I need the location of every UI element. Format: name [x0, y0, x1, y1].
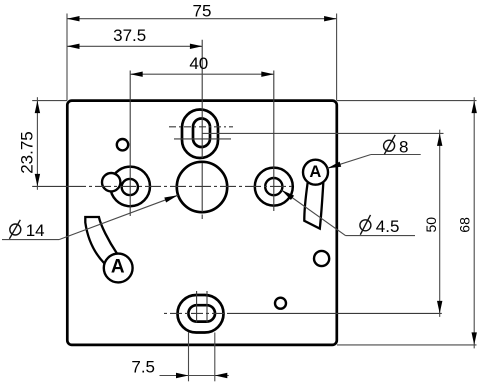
svg-text:50: 50	[423, 217, 439, 233]
dimension 37.5: left arrow	[67, 44, 80, 49]
small hole top-left	[117, 139, 128, 150]
node: bottom slot horizontal centerline	[164, 312, 228, 314]
plate outline	[67, 101, 337, 345]
leader ⌀4.5: underline	[346, 235, 416, 237]
dimension 68: line	[473, 97, 475, 348]
dimension 7.5: left arrow	[176, 373, 189, 378]
leader ⌀4.5: diameter symbol slash	[360, 215, 370, 235]
svg-text:75: 75	[193, 1, 212, 20]
hole left: inner ⌀4.5 circle	[122, 179, 138, 195]
wire: bottom slot centerline extension to 50 dim	[228, 312, 442, 314]
svg-text:4.5: 4.5	[376, 217, 400, 236]
view label A right: circle	[303, 160, 328, 185]
leader ⌀8: slant line	[328, 155, 371, 169]
dimension 37.5: line	[67, 45, 202, 47]
hole left: counterbore circle	[110, 167, 150, 207]
wire: extension line left of plate top edge (for 23.75)	[32, 100, 67, 102]
svg-text:A: A	[111, 256, 125, 277]
slot top: inner obround	[193, 119, 210, 148]
leader ⌀14: arrow	[164, 195, 178, 202]
node: top slot upper arc centerline	[169, 126, 233, 128]
hole right: counterbore circle	[255, 168, 293, 206]
dimension 75: line	[67, 18, 337, 20]
dimension 75: extension line left	[66, 14, 68, 101]
wire: extension line right of plate bottom edge (for 68)	[337, 344, 477, 346]
dimension 50: bottom arrow	[437, 301, 442, 314]
dimension 23.75: bottom arrow	[35, 174, 40, 187]
leader ⌀4.5: arrow	[282, 190, 295, 200]
view slot A right: tail	[304, 177, 323, 229]
dimension 68: bottom arrow	[472, 332, 477, 345]
svg-text:7.5: 7.5	[131, 358, 155, 377]
dimension 75: right arrow	[324, 16, 337, 21]
leader ⌀14: underline	[2, 239, 59, 241]
wire: extension from top slot center to 50 dim	[202, 132, 444, 134]
dimension 23.75: line	[36, 97, 38, 190]
dimension 40: line	[130, 73, 274, 75]
hole left: pin hole circle	[102, 173, 120, 191]
leader ⌀8: diameter symbol slash	[384, 135, 395, 154]
dimension 50: top arrow	[437, 133, 442, 146]
svg-text:68: 68	[456, 217, 472, 233]
slot bottom: outer obround	[178, 295, 224, 333]
hole right: inner ⌀4.5 circle	[265, 178, 282, 195]
dimension 40: left arrow	[130, 72, 143, 77]
dimension 7.5: line	[160, 375, 229, 377]
wire: extension line right of plate top edge (for 68)	[337, 100, 477, 102]
svg-text:37.5: 37.5	[113, 26, 146, 45]
leader ⌀4.5: diameter symbol circle	[360, 220, 371, 231]
leader ⌀8: underline	[371, 154, 421, 156]
dimension 50: line	[439, 130, 441, 317]
dimension 75: left arrow	[67, 16, 80, 21]
node: bottom slot left arc centerline	[196, 291, 198, 323]
node: main horizontal centerline through holes (extension part)	[32, 185, 70, 187]
slot bottom: inner obround	[188, 305, 215, 321]
small hole bottom	[275, 298, 286, 309]
leader ⌀4.5: slant line	[282, 190, 346, 236]
node: vertical centerline plate middle	[201, 40, 203, 219]
view slot A left: tail	[85, 217, 117, 263]
leader ⌀8: arrow	[328, 162, 342, 169]
view label A left: circle	[104, 254, 133, 283]
node: bottom slot right arc centerline	[206, 291, 208, 323]
node: main horizontal centerline through holes	[70, 185, 292, 187]
svg-text:A: A	[309, 163, 321, 181]
dimension 37.5: right arrow	[190, 44, 203, 49]
node: top slot lower arc centerline	[174, 138, 231, 140]
svg-text:8: 8	[399, 137, 408, 156]
dimension 7.5: extension line right	[214, 333, 216, 382]
dimension 68: top arrow	[472, 101, 477, 114]
dimension 75: extension line right	[336, 14, 338, 101]
node: vertical centerline right hole	[273, 71, 275, 212]
dimension 23.75: top arrow	[35, 101, 40, 114]
leader ⌀14: diameter symbol circle	[10, 224, 21, 235]
leader ⌀14: diameter symbol slash	[9, 220, 20, 239]
svg-text:14: 14	[26, 221, 45, 240]
leader ⌀14: slant line	[59, 195, 178, 239]
node: vertical centerline left hole	[129, 71, 131, 217]
slot top: outer obround	[182, 110, 218, 159]
dimension 7.5: right arrow	[215, 373, 228, 378]
dimension 40: right arrow	[261, 72, 274, 77]
dimension 7.5: extension line left	[188, 333, 190, 382]
svg-text:40: 40	[189, 54, 208, 73]
leader ⌀8: diameter symbol circle	[384, 140, 395, 151]
hole center ⌀14	[177, 162, 227, 212]
svg-text:23.75: 23.75	[17, 131, 36, 174]
small hole right	[314, 251, 329, 266]
